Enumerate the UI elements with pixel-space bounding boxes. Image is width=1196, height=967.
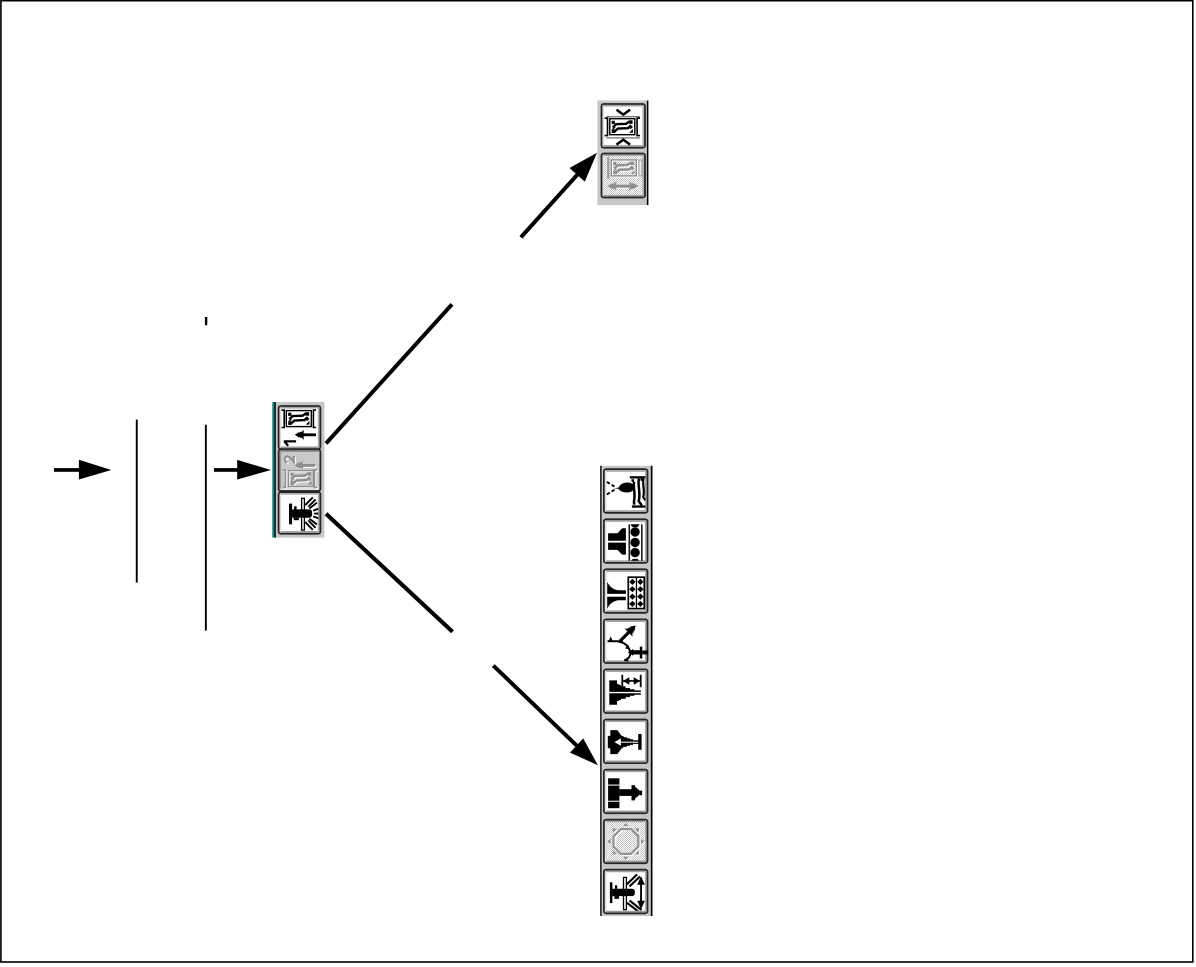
right toolbar button 5 (dimension nozzle)	[604, 669, 648, 713]
top flyout toolbar background	[597, 101, 646, 206]
right toolbar button 9 (torch vertical)	[604, 870, 648, 914]
middle button 1 icon	[282, 410, 317, 446]
right button 8 icon (disabled ring)	[607, 823, 645, 861]
small tick mark	[205, 317, 207, 325]
diagonal arrow A head	[570, 153, 598, 182]
right toolbar button 2 (spot dots)	[604, 519, 648, 563]
horizontal arrow 2	[214, 460, 271, 480]
right button 2 icon (nozzle + 3 dots)	[608, 524, 643, 561]
right button 6 icon (retract nozzle)	[608, 730, 642, 754]
middle toolbar button 3 (torch)	[279, 492, 321, 534]
top button 2 icon (disabled gray)	[607, 157, 642, 192]
diagonal arrow B upper segment	[325, 512, 454, 633]
middle toolbar left black edge	[275, 402, 276, 538]
middle toolbar button 2 (restore seam pass 2, active)	[279, 449, 321, 491]
vertical line 2	[205, 425, 207, 631]
middle toolbar button 1 (restore seam pass 1)	[279, 406, 321, 449]
middle button 3 icon (torch with rays)	[289, 497, 320, 530]
right button 9 icon (torch + vertical arrow)	[610, 874, 645, 911]
top flyout toolbar right edge	[647, 101, 649, 206]
right toolbar button 8 (disabled ring)	[604, 820, 648, 864]
right toolbar button 7 (plug right)	[604, 770, 648, 814]
top button 1 icon	[605, 110, 640, 145]
right button 5 icon (nozzle + dimension)	[609, 675, 641, 705]
right toolbar left black edge	[600, 466, 602, 916]
right toolbar button 4 (corner arc)	[604, 619, 648, 663]
digit 1 (rotated)	[284, 441, 296, 445]
diagonal arrow A lower segment	[325, 303, 454, 445]
middle button 2 icon (gray)	[283, 456, 318, 489]
middle toolbar teal dock strip	[272, 402, 274, 538]
right button 7 icon (block + right arrow)	[608, 778, 642, 808]
right button 3 icon (horn + dot grid)	[607, 577, 644, 609]
right toolbar button 6 (retract nozzle)	[604, 720, 648, 764]
right button 4 icon (corner arc + arrows)	[608, 621, 649, 661]
vertical line 1	[136, 420, 138, 583]
horizontal arrow 1	[54, 460, 111, 480]
diagonal arrow A upper segment	[519, 174, 578, 239]
right toolbar button 3 (dots panel)	[604, 569, 648, 613]
middle toolbar background	[276, 402, 325, 538]
diagonal arrow B lower segment	[492, 664, 578, 747]
right toolbar button 1 (torch to seam)	[604, 469, 648, 513]
right button 1 icon (torch aimed at seam)	[607, 476, 646, 507]
top toolbar button 2 (stretch seam, disabled)	[602, 154, 646, 198]
top toolbar button 1 (squeeze seam)	[602, 104, 646, 148]
right toolbar background	[602, 466, 651, 916]
right toolbar right black edge	[651, 466, 653, 916]
diagonal arrow B head	[570, 738, 598, 765]
digit 2 (rotated, embossed gray)	[285, 456, 295, 463]
